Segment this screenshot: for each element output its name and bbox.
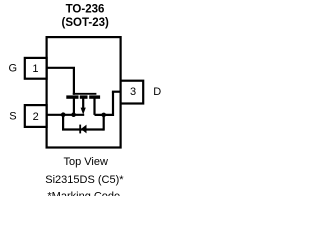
- junction dot rail-source: [71, 112, 76, 117]
- wire drain lead: [93, 98, 95, 115]
- pin 3 box: [121, 81, 144, 104]
- wire drain bottom: [95, 114, 114, 116]
- body diode D1 cathode bar: [79, 125, 81, 134]
- svg-text:TO-236: TO-236: [66, 4, 105, 16]
- wire body lead: [82, 98, 84, 109]
- wire source lead: [73, 98, 75, 115]
- junction dot rail-diode: [61, 112, 66, 117]
- svg-text:(SOT-23): (SOT-23): [62, 17, 109, 29]
- svg-text:S: S: [9, 111, 16, 123]
- wire source rail from pin 2: [47, 114, 85, 116]
- svg-text:2: 2: [33, 111, 39, 123]
- wire gate from pin 1: [47, 68, 74, 95]
- transistor Q1 channel segment body: [80, 95, 88, 98]
- wire drain stub to pin 3: [112, 91, 121, 93]
- wire drain riser: [112, 92, 114, 116]
- svg-text:1: 1: [32, 63, 38, 75]
- svg-text:Si2315DS (C5)*: Si2315DS (C5)*: [45, 174, 124, 186]
- svg-text:D: D: [153, 86, 161, 98]
- svg-text:3: 3: [130, 86, 136, 98]
- transistor Q1 channel segment source: [66, 95, 78, 98]
- package outline: [47, 37, 121, 147]
- wire diode bottom: [62, 128, 104, 130]
- svg-text:G: G: [9, 62, 18, 74]
- body arrow (p-channel): [81, 108, 86, 115]
- wire diode left drop: [62, 115, 64, 130]
- transistor Q1 channel segment drain: [89, 95, 100, 98]
- pin 1 box: [25, 58, 47, 79]
- junction dot drain-diode: [101, 113, 106, 118]
- pin 2 box: [25, 105, 47, 127]
- svg-text:*Marking Code: *Marking Code: [47, 191, 120, 196]
- body diode D1 triangle: [81, 125, 87, 134]
- wire diode right riser: [103, 115, 105, 131]
- transistor Q1 gate bar: [73, 93, 97, 95]
- svg-text:Top View: Top View: [63, 156, 107, 168]
